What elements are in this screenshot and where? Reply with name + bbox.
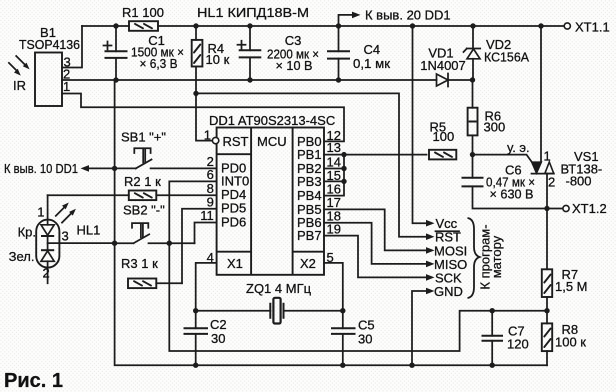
node junction GND rail xyxy=(409,363,414,368)
resistor R7 xyxy=(542,209,588,311)
svg-text:ZQ1 4 МГц: ZQ1 4 МГц xyxy=(246,281,312,296)
wire X1 pin4 to crystal xyxy=(196,263,217,311)
svg-text:× 10 В: × 10 В xyxy=(276,58,313,73)
MCU DD1 AT90S2313 xyxy=(200,113,341,275)
brace to programmer xyxy=(468,218,505,298)
HL1 light arrows xyxy=(56,203,76,223)
svg-text:8: 8 xyxy=(207,181,214,196)
svg-text:2: 2 xyxy=(43,266,50,281)
svg-text:0,1 мк: 0,1 мк xyxy=(353,56,390,71)
node junction crystal right xyxy=(340,308,345,313)
svg-text:К выв. 10 DD1: К выв. 10 DD1 xyxy=(4,161,78,176)
svg-text:IR: IR xyxy=(13,78,26,93)
terminal XT1.2 xyxy=(563,201,607,216)
node junction C1 bottom xyxy=(113,77,118,82)
resistor R6 xyxy=(468,80,506,155)
capacitor C6 xyxy=(462,155,564,209)
node junction SB2 INT0 net xyxy=(167,241,172,246)
node junction R5 R6 C6 gate xyxy=(470,152,475,157)
svg-text:КС156А: КС156А xyxy=(484,50,529,65)
svg-text:у. э.: у. э. xyxy=(507,140,530,155)
resistor R5 xyxy=(429,120,456,160)
node junction R7 R8 xyxy=(544,308,549,313)
node junction pin15 xyxy=(341,179,346,184)
button SB1 xyxy=(115,130,217,169)
svg-text:Рис. 1: Рис. 1 xyxy=(4,370,63,392)
svg-text:× 6,3 В: × 6,3 В xyxy=(140,56,178,71)
wire PB6 to MISO xyxy=(324,223,427,264)
wire INT0 zero-cross net xyxy=(169,181,547,351)
wire R4 bottom to RST pin1 xyxy=(196,67,213,141)
svg-text:2: 2 xyxy=(548,175,555,190)
svg-text:C4: C4 xyxy=(364,42,381,57)
svg-text:R1 100: R1 100 xyxy=(122,5,164,20)
node junction C3 top xyxy=(247,23,252,28)
diode VD1 xyxy=(420,46,466,87)
node junction C2 rail xyxy=(193,363,198,368)
svg-text:10 к: 10 к xyxy=(206,52,230,67)
capacitor C7 xyxy=(482,311,529,366)
button SB2 xyxy=(115,203,195,244)
svg-text:XT1.2: XT1.2 xyxy=(572,201,607,216)
node junction triac top rail xyxy=(538,23,543,28)
node junction R4 top xyxy=(193,23,198,28)
svg-text:R2 1 к: R2 1 к xyxy=(124,174,161,189)
zener VD2 xyxy=(464,26,530,80)
wire PB1 PB2 PB3 tie and to R5 xyxy=(324,155,427,196)
svg-text:11: 11 xyxy=(200,208,214,223)
node junction VD2 top xyxy=(470,23,475,28)
receiver B1 TSOP4136 xyxy=(19,25,80,106)
svg-text:SB2 "-": SB2 "-" xyxy=(123,203,165,218)
wire PD5 to R3 xyxy=(182,209,217,283)
svg-text:XT1.1: XT1.1 xyxy=(575,20,610,35)
LED HL1 xyxy=(9,195,115,283)
triac VS1 xyxy=(532,26,603,209)
svg-text:Зел.: Зел. xyxy=(9,249,35,264)
node junction pin13 xyxy=(341,152,346,157)
wire GND to bottom rail xyxy=(412,291,427,365)
svg-text:MCU: MCU xyxy=(257,134,287,149)
svg-text:PD6: PD6 xyxy=(221,214,246,229)
svg-text:C2: C2 xyxy=(210,317,227,332)
svg-text:19: 19 xyxy=(327,221,341,236)
node junction VD1 VD2 R6 xyxy=(470,77,475,82)
svg-text:30: 30 xyxy=(211,331,225,346)
crystal ZQ1 xyxy=(196,281,343,324)
capacitor C2 xyxy=(184,311,227,366)
terminal XT1.1 xyxy=(564,20,609,35)
node junction C5 rail xyxy=(340,363,345,368)
svg-text:100: 100 xyxy=(433,129,455,144)
IR arrows into B1 xyxy=(9,56,30,93)
svg-text:SB1 "+": SB1 "+" xyxy=(121,130,166,145)
svg-text:RST: RST xyxy=(223,134,249,149)
svg-text:PB7: PB7 xyxy=(297,228,322,243)
resistor R1 xyxy=(122,5,164,31)
svg-text:X1: X1 xyxy=(227,256,243,271)
wire arrow to pin 10 DD1 xyxy=(4,161,115,176)
node junction Vcc vertical top xyxy=(410,23,415,28)
svg-text:1: 1 xyxy=(63,79,70,94)
node junction crystal left xyxy=(193,308,198,313)
svg-text:1: 1 xyxy=(204,128,211,143)
node junction C1 top xyxy=(113,23,118,28)
wire B1 pin3 to top rail xyxy=(62,26,82,68)
wire PB5 to MOSI xyxy=(324,209,427,250)
resistor R8 xyxy=(542,311,587,366)
svg-text:1: 1 xyxy=(37,205,44,220)
svg-text:PB1: PB1 xyxy=(297,147,322,162)
svg-text:1N4007: 1N4007 xyxy=(420,58,466,73)
svg-text:DD1 AT90S2313-4SC: DD1 AT90S2313-4SC xyxy=(209,113,335,128)
svg-text:PB4: PB4 xyxy=(297,188,322,203)
svg-text:3: 3 xyxy=(62,229,69,244)
node junction SB1 bus xyxy=(112,166,117,171)
node junction C7 bottom xyxy=(490,363,495,368)
svg-text:GND: GND xyxy=(434,284,463,299)
capacitor C1 xyxy=(104,26,185,80)
svg-text:16: 16 xyxy=(327,181,341,196)
node junction C4 bottom xyxy=(336,77,341,82)
wire B1 pin1 TSOP output to PB0 pin12 xyxy=(62,94,344,142)
svg-text:C5: C5 xyxy=(358,318,375,333)
node junction R4 bottom RST xyxy=(193,91,198,96)
node junction C4 top xyxy=(336,23,341,28)
svg-text:К выв. 20 DD1: К выв. 20 DD1 xyxy=(365,8,451,23)
wire X2 pin5 to crystal xyxy=(324,263,343,311)
svg-text:120: 120 xyxy=(507,337,529,352)
wire Vcc from top rail xyxy=(413,26,427,223)
svg-text:300: 300 xyxy=(484,120,506,135)
resistor R2 xyxy=(48,174,217,200)
wire arrow to pin 20 DD1 xyxy=(339,8,451,27)
wire top +5V rail xyxy=(82,25,564,27)
svg-text:100 к: 100 к xyxy=(555,335,586,350)
svg-text:Кр.: Кр. xyxy=(18,225,36,240)
svg-text:матору: матору xyxy=(489,235,504,278)
wire minus bus x114.6 xyxy=(115,80,547,365)
capacitor C5 xyxy=(331,311,375,366)
svg-text:1,5 М: 1,5 М xyxy=(555,279,588,294)
node junction triac XT1.2 xyxy=(544,206,549,211)
wire minus rail y80 xyxy=(62,79,473,81)
svg-text:R3 1 к: R3 1 к xyxy=(121,256,158,271)
svg-text:× 630 В: × 630 В xyxy=(490,187,534,202)
capacitor C4 xyxy=(327,26,390,80)
svg-text:HL1: HL1 xyxy=(77,223,101,238)
wire gate to triac xyxy=(473,155,533,163)
wire RST net rail y93 xyxy=(196,93,427,236)
svg-text:TSOP4136: TSOP4136 xyxy=(19,37,80,52)
svg-text:30: 30 xyxy=(358,332,372,347)
node junction SB2 bus HL1 xyxy=(112,241,117,246)
wire PB7 to SCK xyxy=(324,236,427,278)
node junction C7 top xyxy=(490,308,495,313)
node junction pin14 xyxy=(341,166,346,171)
node junction C3 bottom xyxy=(247,77,252,82)
programmer arrows and labels xyxy=(426,216,467,299)
svg-text:PB3: PB3 xyxy=(297,174,322,189)
svg-text:1: 1 xyxy=(544,149,551,164)
svg-text:13: 13 xyxy=(327,140,341,155)
svg-text:X2: X2 xyxy=(300,256,316,271)
capacitor C3 xyxy=(238,26,320,80)
svg-text:HL1 КИПД18В-М: HL1 КИПД18В-М xyxy=(197,5,309,20)
resistor R3 xyxy=(121,256,182,288)
wire PD6 to SB2 line xyxy=(195,223,217,244)
resistor R4 xyxy=(192,26,230,67)
svg-text:-800: -800 xyxy=(566,174,592,189)
